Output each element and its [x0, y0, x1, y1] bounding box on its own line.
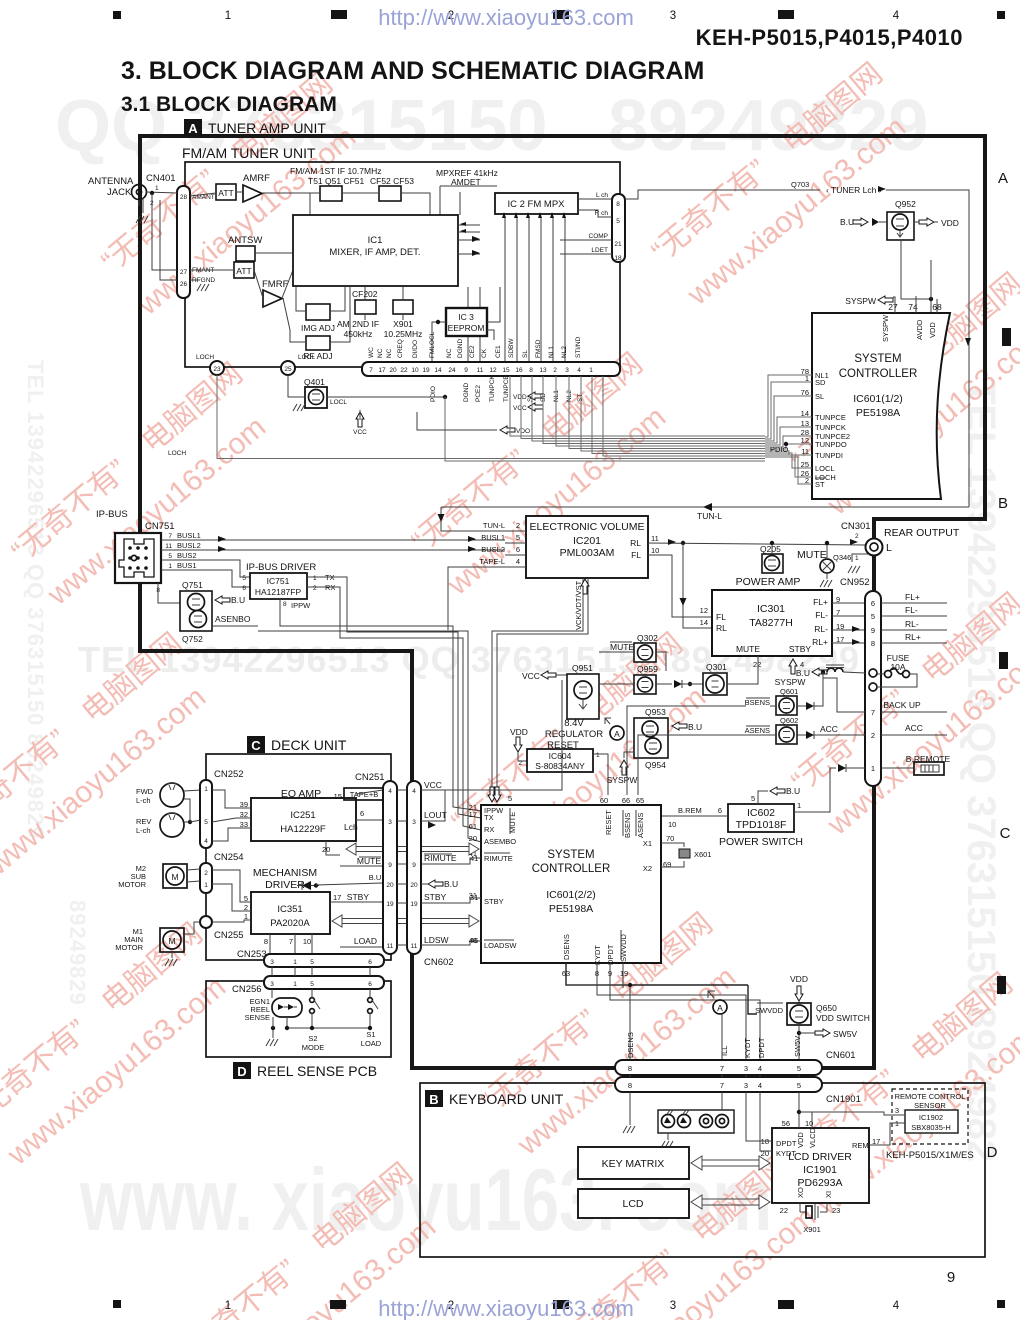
svg-text:13: 13: [539, 367, 547, 374]
svg-text:IC1901: IC1901: [803, 1164, 837, 1176]
svg-text:6: 6: [718, 806, 722, 815]
svg-text:ANTENNA: ANTENNA: [88, 176, 134, 187]
svg-text:14: 14: [700, 618, 708, 627]
svg-text:TUNPCE: TUNPCE: [815, 413, 846, 422]
svg-text:MODE: MODE: [302, 1043, 325, 1052]
svg-text:EEPROM: EEPROM: [448, 323, 485, 333]
svg-text:http://www.xiaoyu163.com: http://www.xiaoyu163.com: [378, 5, 634, 30]
svg-text:POWER SWITCH: POWER SWITCH: [719, 836, 803, 848]
svg-text:FMRF: FMRF: [262, 279, 289, 290]
svg-text:B.U: B.U: [796, 668, 810, 678]
svg-text:B.U: B.U: [369, 873, 382, 882]
svg-text:X1: X1: [643, 839, 652, 848]
svg-text:IC601(2/2): IC601(2/2): [546, 889, 596, 901]
svg-text:SWVDD: SWVDD: [755, 1006, 784, 1015]
svg-text:15: 15: [334, 792, 342, 801]
svg-text:SYSPW: SYSPW: [845, 296, 876, 306]
svg-text:D: D: [987, 1144, 998, 1161]
svg-text:IC 2 FM MPX: IC 2 FM MPX: [507, 199, 565, 210]
svg-text:T51 Q51 CF51: T51 Q51 CF51: [308, 176, 364, 186]
svg-text:STBY: STBY: [484, 897, 504, 906]
svg-text:LOUT: LOUT: [424, 810, 447, 820]
svg-text:BUS1: BUS1: [177, 561, 197, 570]
svg-text:Q953: Q953: [645, 707, 666, 717]
svg-text:LOCH: LOCH: [168, 450, 186, 457]
svg-text:3.1 BLOCK DIAGRAM: 3.1 BLOCK DIAGRAM: [121, 93, 337, 116]
svg-text:SL: SL: [522, 350, 529, 358]
svg-text:19: 19: [422, 367, 430, 374]
svg-text:RL-: RL-: [905, 619, 919, 629]
svg-text:IP-BUS DRIVER: IP-BUS DRIVER: [246, 562, 316, 573]
svg-text:WC: WC: [368, 347, 375, 358]
svg-text:4: 4: [758, 1064, 762, 1073]
svg-text:LOAD: LOAD: [361, 1039, 382, 1048]
svg-text:ELECTRONIC VOLUME: ELECTRONIC VOLUME: [530, 521, 645, 533]
svg-text:1: 1: [596, 752, 600, 759]
svg-text:8: 8: [283, 601, 287, 608]
svg-text:22: 22: [400, 367, 408, 374]
svg-text:FL+: FL+: [813, 597, 828, 607]
svg-text:PDIO: PDIO: [430, 386, 437, 402]
svg-text:10: 10: [303, 937, 311, 946]
svg-text:2: 2: [871, 731, 875, 740]
svg-text:IMG ADJ: IMG ADJ: [301, 323, 335, 333]
svg-text:NL1: NL1: [548, 346, 555, 358]
svg-text:VDD: VDD: [510, 727, 528, 737]
svg-text:VCC: VCC: [424, 780, 442, 790]
svg-text:SYSTEM: SYSTEM: [547, 849, 594, 861]
svg-text:8: 8: [628, 1064, 632, 1073]
svg-text:9: 9: [871, 626, 875, 635]
svg-text:VDD: VDD: [513, 394, 527, 401]
svg-text:CN601: CN601: [826, 1050, 856, 1061]
svg-text:7: 7: [720, 1081, 724, 1090]
svg-text:6: 6: [368, 981, 372, 988]
svg-text:CF52 CF53: CF52 CF53: [370, 176, 414, 186]
svg-text:L: L: [886, 542, 892, 554]
svg-text:Q601: Q601: [780, 687, 798, 696]
svg-text:LOAD: LOAD: [354, 936, 377, 946]
svg-text:ATT: ATT: [218, 188, 233, 198]
svg-text:LOCL: LOCL: [815, 464, 835, 473]
svg-text:BSENS: BSENS: [623, 813, 632, 838]
svg-text:4: 4: [516, 557, 520, 566]
svg-text:TUNPCE: TUNPCE: [503, 375, 510, 402]
svg-text:BUSL1: BUSL1: [177, 531, 201, 540]
svg-text:SD: SD: [815, 378, 826, 387]
svg-text:PCE2: PCE2: [475, 385, 482, 402]
svg-text:RL: RL: [716, 623, 727, 633]
svg-text:KYDT: KYDT: [776, 1149, 796, 1158]
svg-text:3: 3: [895, 1106, 899, 1115]
svg-text:TAPE-L: TAPE-L: [479, 557, 505, 566]
svg-text:A: A: [614, 729, 620, 739]
svg-text:11: 11: [387, 943, 394, 950]
svg-text:TUN-L: TUN-L: [483, 521, 505, 530]
svg-text:DPDT: DPDT: [606, 944, 615, 965]
svg-text:SD: SD: [540, 393, 547, 402]
svg-text:B.U: B.U: [840, 217, 854, 227]
svg-text:1: 1: [204, 882, 208, 889]
svg-text:SBX8035-H: SBX8035-H: [911, 1123, 951, 1132]
svg-text:3. BLOCK DIAGRAM AND SCHEMATIC: 3. BLOCK DIAGRAM AND SCHEMATIC DIAGRAM: [121, 57, 704, 85]
svg-text:1: 1: [855, 555, 859, 562]
svg-text:SW5V: SW5V: [793, 1036, 802, 1057]
svg-text:KYDT: KYDT: [743, 1038, 752, 1058]
svg-text:4: 4: [388, 788, 392, 795]
svg-text:70: 70: [666, 834, 674, 843]
svg-text:Q302: Q302: [637, 633, 658, 643]
svg-text:STBY: STBY: [347, 892, 370, 902]
svg-text:61: 61: [469, 822, 477, 831]
svg-text:11: 11: [651, 534, 659, 543]
svg-text:CN253: CN253: [237, 949, 267, 960]
svg-text:IC 3: IC 3: [458, 312, 474, 322]
svg-text:MOTOR: MOTOR: [115, 943, 143, 952]
svg-text:Q205: Q205: [760, 544, 781, 554]
svg-text:Q602: Q602: [780, 716, 798, 725]
svg-text:9: 9: [412, 862, 416, 869]
svg-text:1: 1: [204, 786, 208, 793]
svg-text:CK: CK: [481, 348, 488, 358]
svg-text:HA12187FP: HA12187FP: [255, 587, 302, 597]
svg-text:2: 2: [518, 760, 522, 767]
svg-text:S2: S2: [308, 1034, 317, 1043]
svg-text:FM/AM TUNER UNIT: FM/AM TUNER UNIT: [182, 145, 316, 161]
svg-text:Q954: Q954: [645, 760, 666, 770]
svg-text:5: 5: [310, 981, 314, 988]
svg-text:CN301: CN301: [841, 521, 871, 532]
svg-text:X2: X2: [643, 864, 652, 873]
svg-text:REMOTE CONTROL: REMOTE CONTROL: [895, 1092, 966, 1101]
svg-text:STBY: STBY: [789, 644, 812, 654]
svg-text:LOCL: LOCL: [298, 354, 315, 361]
svg-text:5: 5: [797, 1064, 801, 1073]
svg-text:10: 10: [651, 546, 659, 555]
svg-text:1: 1: [155, 185, 159, 192]
svg-text:8: 8: [628, 1081, 632, 1090]
svg-text:4: 4: [412, 788, 416, 795]
svg-text:5: 5: [310, 959, 314, 966]
svg-text:LCD: LCD: [622, 1198, 643, 1210]
svg-text:60: 60: [600, 796, 608, 805]
svg-text:27: 27: [180, 269, 188, 276]
svg-text:11: 11: [477, 367, 484, 374]
svg-text:DGND: DGND: [463, 383, 470, 402]
svg-text:65: 65: [636, 796, 644, 805]
svg-text:2: 2: [204, 870, 208, 877]
svg-text:3: 3: [412, 819, 416, 826]
svg-text:Q650: Q650: [816, 1003, 837, 1013]
svg-text:18: 18: [614, 255, 622, 262]
svg-text:MUTE: MUTE: [797, 549, 827, 561]
svg-text:IC751: IC751: [267, 576, 290, 586]
svg-text:28: 28: [180, 194, 188, 201]
svg-text:REAR OUTPUT: REAR OUTPUT: [884, 527, 960, 539]
svg-text:FMLOCL: FMLOCL: [429, 331, 436, 358]
svg-text:ST: ST: [577, 394, 584, 402]
svg-text:JACK: JACK: [107, 187, 132, 198]
svg-text:D: D: [237, 1064, 246, 1079]
svg-text:5: 5: [508, 794, 512, 803]
svg-text:20: 20: [761, 1149, 769, 1158]
svg-text:LCD DRIVER: LCD DRIVER: [788, 1151, 852, 1163]
svg-text:5: 5: [616, 218, 620, 225]
svg-text:Q951: Q951: [572, 663, 593, 673]
svg-text:IC251: IC251: [290, 810, 315, 821]
svg-text:7: 7: [168, 533, 172, 540]
svg-text:XO: XO: [796, 1187, 805, 1198]
svg-text:PA2020A: PA2020A: [270, 918, 310, 929]
svg-text:REV: REV: [136, 817, 151, 826]
svg-text:NC: NC: [377, 348, 384, 358]
svg-text:VCC: VCC: [522, 671, 540, 681]
svg-text:S1: S1: [366, 1030, 375, 1039]
svg-text:19: 19: [620, 969, 628, 978]
svg-text:SYSPW: SYSPW: [775, 677, 806, 687]
svg-text:21: 21: [614, 241, 622, 248]
svg-text:REEL SENSE PCB: REEL SENSE PCB: [257, 1063, 377, 1079]
svg-text:KYDT: KYDT: [593, 945, 602, 965]
svg-text:9: 9: [388, 862, 392, 869]
svg-text:2: 2: [855, 533, 859, 540]
svg-text:A: A: [998, 170, 1008, 187]
svg-text:B.U: B.U: [231, 595, 245, 605]
svg-text:SWVDD: SWVDD: [619, 934, 628, 963]
svg-text:TUN-L: TUN-L: [697, 511, 722, 521]
svg-text:C: C: [251, 738, 261, 753]
svg-text:FWD: FWD: [136, 787, 154, 796]
svg-text:L-ch: L-ch: [136, 796, 151, 805]
svg-text:10: 10: [411, 367, 419, 374]
svg-text:Q751: Q751: [182, 580, 203, 590]
svg-text:MIXER, IF AMP, DET.: MIXER, IF AMP, DET.: [329, 247, 420, 258]
svg-text:7: 7: [369, 367, 373, 374]
svg-text:FM/AM 1ST IF 10.7MHz: FM/AM 1ST IF 10.7MHz: [290, 166, 381, 176]
svg-text:XI: XI: [824, 1191, 833, 1198]
svg-text:IPPW: IPPW: [291, 601, 311, 610]
svg-text:AMRF: AMRF: [243, 173, 270, 184]
svg-text:NC: NC: [386, 348, 393, 358]
svg-text:Q401: Q401: [304, 377, 325, 387]
svg-text:3: 3: [744, 1081, 748, 1090]
svg-text:MECHANISM: MECHANISM: [253, 867, 317, 879]
svg-text:A: A: [188, 121, 198, 136]
svg-text:5: 5: [871, 612, 875, 621]
svg-text:1: 1: [293, 959, 297, 966]
svg-text:NC: NC: [446, 348, 453, 358]
svg-text:TUNER AMP UNIT: TUNER AMP UNIT: [208, 120, 326, 136]
svg-text:IC604: IC604: [549, 751, 572, 761]
svg-text:11: 11: [165, 543, 172, 550]
svg-text:IC1902: IC1902: [919, 1113, 943, 1122]
svg-text:TUNPCK: TUNPCK: [815, 423, 846, 432]
svg-text:REGULATOR: REGULATOR: [545, 729, 603, 740]
svg-text:VLCD: VLCD: [808, 1127, 817, 1148]
svg-text:L ch: L ch: [596, 192, 608, 199]
svg-text:5: 5: [242, 575, 246, 582]
svg-text:7: 7: [871, 708, 875, 717]
svg-text:FMSD: FMSD: [535, 339, 542, 358]
svg-text:CN1901: CN1901: [826, 1094, 861, 1105]
svg-text:COMP: COMP: [589, 233, 609, 240]
svg-text:IC602: IC602: [747, 807, 775, 819]
svg-text:SW5V: SW5V: [833, 1029, 857, 1039]
svg-text:3: 3: [388, 819, 392, 826]
svg-text:11: 11: [411, 943, 418, 950]
svg-text:M: M: [171, 872, 178, 882]
svg-text:450kHz: 450kHz: [344, 329, 373, 339]
svg-text:RL+: RL+: [905, 632, 921, 642]
svg-text:1: 1: [313, 575, 317, 582]
svg-text:M: M: [168, 936, 175, 946]
svg-text:69: 69: [663, 860, 671, 869]
svg-text:CN952: CN952: [840, 577, 870, 588]
svg-text:DPDT: DPDT: [776, 1139, 797, 1148]
svg-text:SENSOR: SENSOR: [914, 1101, 946, 1110]
svg-text:NL2: NL2: [566, 390, 573, 402]
svg-text:BUSL1: BUSL1: [481, 533, 505, 542]
svg-text:VCC: VCC: [353, 429, 367, 436]
svg-text:MOTOR: MOTOR: [118, 880, 146, 889]
svg-text:26: 26: [180, 281, 188, 288]
svg-text:24: 24: [448, 367, 456, 374]
svg-text:CN401: CN401: [146, 173, 176, 184]
svg-text:IC301: IC301: [757, 603, 785, 615]
svg-text:B.U: B.U: [786, 786, 800, 796]
svg-text:8: 8: [529, 367, 533, 374]
svg-text:BACK UP: BACK UP: [883, 700, 921, 710]
svg-text:7: 7: [720, 1064, 724, 1073]
svg-text:1: 1: [225, 10, 231, 22]
svg-text:TUNPDI: TUNPDI: [815, 451, 843, 460]
svg-text:AM 2ND IF: AM 2ND IF: [337, 319, 379, 329]
svg-text:CN256: CN256: [232, 984, 262, 995]
svg-text:1: 1: [225, 1300, 231, 1312]
svg-text:16: 16: [515, 367, 523, 374]
svg-text:VDD: VDD: [796, 1132, 805, 1148]
svg-text:PML003AM: PML003AM: [560, 547, 615, 559]
svg-text:27: 27: [888, 302, 898, 312]
svg-text:25: 25: [284, 366, 292, 373]
svg-text:6: 6: [516, 545, 520, 554]
svg-text:ASEMBO: ASEMBO: [484, 837, 516, 846]
svg-text:2: 2: [313, 585, 317, 592]
svg-text:ASENS: ASENS: [636, 813, 645, 838]
svg-text:CN751: CN751: [145, 521, 175, 532]
svg-text:7: 7: [289, 937, 293, 946]
svg-text:SL: SL: [815, 392, 824, 401]
svg-text:RL: RL: [630, 538, 641, 548]
svg-text:Q301: Q301: [706, 662, 727, 672]
svg-text:10: 10: [668, 820, 676, 829]
svg-text:4: 4: [204, 838, 208, 845]
svg-text:4: 4: [893, 10, 900, 22]
svg-text:3: 3: [670, 10, 676, 22]
svg-text:DI/DO: DI/DO: [412, 340, 419, 358]
svg-text:RIMUTE: RIMUTE: [484, 854, 513, 863]
svg-text:IC601(1/2): IC601(1/2): [853, 393, 903, 405]
svg-text:BSENS: BSENS: [745, 698, 770, 707]
svg-text:17: 17: [378, 367, 386, 374]
svg-text:AVDD: AVDD: [915, 319, 924, 340]
svg-text:MUTE: MUTE: [736, 644, 760, 654]
svg-text:LOADSW: LOADSW: [484, 941, 517, 950]
svg-text:VCC: VCC: [513, 405, 527, 412]
svg-text:C: C: [1000, 825, 1011, 842]
svg-text:X601: X601: [694, 850, 712, 859]
svg-text:B: B: [429, 1092, 438, 1107]
svg-text:10.25MHz: 10.25MHz: [384, 329, 423, 339]
svg-text:CN602: CN602: [424, 957, 454, 968]
svg-text:MUTE: MUTE: [610, 642, 634, 652]
svg-text:TA8277H: TA8277H: [749, 617, 793, 629]
svg-text:3: 3: [270, 981, 274, 988]
svg-text:X901: X901: [803, 1225, 821, 1234]
svg-text:B.U: B.U: [444, 879, 458, 889]
svg-text:17: 17: [333, 893, 341, 902]
svg-text:8: 8: [264, 937, 268, 946]
svg-text:74: 74: [908, 302, 918, 312]
svg-text:LDSW: LDSW: [424, 935, 449, 945]
svg-text:SYSPW: SYSPW: [607, 775, 638, 785]
svg-text:89249829: 89249829: [65, 900, 90, 1006]
svg-text:CONTROLLER: CONTROLLER: [839, 368, 918, 380]
svg-text:SYSPW: SYSPW: [881, 314, 890, 342]
svg-text:TUNPDO: TUNPDO: [815, 440, 847, 449]
svg-text:3: 3: [270, 959, 274, 966]
svg-text:BUSL2: BUSL2: [177, 541, 201, 550]
svg-text:ILL: ILL: [720, 1046, 729, 1056]
svg-text:3: 3: [744, 1064, 748, 1073]
svg-text:L-ch: L-ch: [136, 826, 151, 835]
svg-text:5: 5: [751, 794, 755, 803]
svg-text:BUSL2: BUSL2: [481, 545, 505, 554]
svg-text:1: 1: [797, 801, 801, 810]
svg-text:NL2: NL2: [561, 346, 568, 358]
svg-text:ANTSW: ANTSW: [228, 235, 262, 246]
svg-text:23: 23: [832, 1206, 840, 1215]
svg-text:66: 66: [622, 796, 630, 805]
svg-text:FL-: FL-: [815, 610, 828, 620]
svg-text:SYSTEM: SYSTEM: [854, 353, 901, 365]
svg-text:DSENS: DSENS: [562, 934, 571, 960]
svg-text:S-80834ANY: S-80834ANY: [535, 761, 585, 771]
svg-text:VDD SWITCH: VDD SWITCH: [816, 1013, 870, 1023]
svg-text:ACC: ACC: [905, 723, 923, 733]
svg-text:FL: FL: [716, 612, 726, 622]
svg-text:5: 5: [204, 819, 208, 826]
svg-text:‹ TUNER Lch ›: ‹ TUNER Lch ›: [826, 185, 882, 195]
svg-text:A: A: [717, 1003, 723, 1013]
svg-text:9: 9: [464, 367, 468, 374]
svg-text:ST: ST: [815, 480, 825, 489]
svg-text:4: 4: [758, 1081, 762, 1090]
svg-text:ATT: ATT: [236, 266, 251, 276]
svg-text:B.REM: B.REM: [678, 806, 702, 815]
svg-text:SL: SL: [527, 394, 534, 402]
svg-text:Q952: Q952: [895, 199, 916, 209]
svg-text:BUS2: BUS2: [177, 551, 197, 560]
svg-text:Lch: Lch: [344, 822, 358, 832]
svg-text:FL-: FL-: [905, 605, 918, 615]
svg-text:22: 22: [753, 660, 761, 669]
svg-text:X901: X901: [393, 319, 413, 329]
svg-text:CN254: CN254: [214, 852, 244, 863]
svg-text:20: 20: [386, 882, 394, 889]
svg-text:DPDT: DPDT: [757, 1037, 766, 1058]
svg-text:Q959: Q959: [637, 664, 658, 674]
